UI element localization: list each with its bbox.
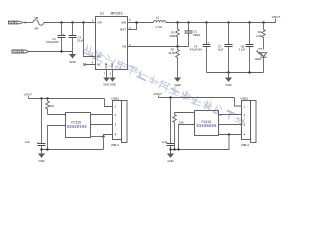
svg-text:L2: L2 [156,15,160,19]
svg-text:100K: 100K [169,34,175,38]
IC PL515 right [195,111,219,136]
regulator U1 MP2315 [92,11,131,69]
svg-text:4.7uH: 4.7uH [155,25,162,29]
svg-text:USB1: USB1 [111,97,119,101]
ground R2 [174,78,181,88]
resistor 51K right [173,113,184,150]
svg-text:6R: 6R [35,27,39,31]
svg-text:LED1: LED1 [255,57,262,61]
svg-text:470uF/16V: 470uF/16V [190,49,203,52]
capacitor C5 330pF [185,23,201,47]
capacitor 1uF right [162,98,175,154]
svg-text:GND: GND [174,83,180,87]
svg-text:R2: R2 [171,47,175,51]
ground left block [38,154,45,164]
node C1 [60,21,62,23]
wire vout rail [159,97,235,99]
resistor R4 2.0K [256,23,265,50]
svg-text:R4: R4 [258,30,262,34]
svg-text:24.9K: 24.9K [168,51,175,55]
svg-text:+: + [63,32,65,36]
wire D+ right [219,114,242,116]
svg-text:0.1uF: 0.1uF [77,39,84,43]
svg-text:FB: FB [35,16,39,20]
svg-text:U1: U1 [100,11,104,15]
svg-text:GND: GND [110,63,114,69]
svg-text:GND: GND [103,83,109,87]
wire D- [91,124,113,126]
wire BST [128,23,137,30]
svg-text:R1: R1 [171,30,175,34]
capacitor 1uF left [25,99,45,154]
node C3 [71,21,73,23]
inductor L2 4.7uH [154,15,166,29]
watermark company name [82,43,247,127]
svg-text:BST: BST [120,28,126,32]
svg-text:USB-A: USB-A [241,143,249,147]
wire pin2 to gnd [48,126,66,150]
no-connect X pin4 [83,63,95,65]
svg-text:51K: 51K [50,104,55,108]
wire [25,22,33,24]
wire pin2 to gnd right [179,125,195,150]
svg-text:100uF/25V: 100uF/25V [46,40,59,44]
wire SW [128,22,154,24]
wire LED down [263,57,265,72]
node VOUT top [275,19,277,23]
svg-text:1uF: 1uF [25,140,30,144]
wire FB line [128,46,189,48]
svg-text:1uF: 1uF [162,140,167,144]
wire vout to pin1 right [235,98,242,107]
LED1 [255,49,267,61]
svg-text:GND: GND [104,63,108,69]
svg-text:EN: EN [97,55,101,59]
wire vout rail [166,22,276,24]
wire gnd line [42,149,104,151]
svg-text:VOUT: VOUT [272,15,281,19]
svg-text:51K: 51K [179,121,184,125]
svg-text:+: + [207,41,209,45]
svg-text:USB-A: USB-A [111,143,119,147]
svg-text:2.0K: 2.0K [256,34,262,38]
svg-text:GND: GND [225,83,231,87]
ground output [225,78,232,88]
wire gnd rail [29,51,73,53]
svg-text:GND: GND [13,50,24,54]
wire EN branch [84,23,96,57]
IC PL515 left [66,113,91,138]
svg-text:PL515: PL515 [71,121,81,125]
wire gnd line right [171,149,230,151]
svg-text:NC: NC [97,63,101,67]
svg-text:VIN: VIN [9,21,18,25]
svg-text:GND: GND [39,159,45,163]
svg-text:GND: GND [69,60,75,64]
svg-text:VOUT: VOUT [24,93,33,97]
wire pin4 gnd [104,135,113,150]
wire PL515 gnd stub [91,136,104,138]
wire [72,52,74,55]
capacitor C3 0.1uF [69,23,85,52]
svg-text:10uF: 10uF [218,49,224,52]
port VIN [9,21,27,25]
port GND [12,50,29,54]
capacitor C8 0.1uF [239,23,254,73]
U1 gnd pin stubs [107,70,113,78]
ferrite bead FB [33,20,44,25]
wire input rail [44,22,96,24]
svg-text:B5B: B5B [258,49,263,51]
ground right block [167,154,174,164]
capacitor C1 100uF/25V [46,23,65,52]
ground input [69,54,76,64]
wire vout to pin1 [105,99,113,107]
svg-text:330pF: 330pF [193,33,201,37]
node EN [82,21,84,23]
svg-text:GND: GND [110,83,116,87]
wire pin4 gnd right [219,134,242,136]
wire D- right [219,124,242,126]
svg-text:USB2: USB2 [240,97,248,101]
capacitor C4 470uF/16V [190,23,211,73]
wire pin1 line right [175,112,195,114]
connector USB1 [111,97,127,147]
svg-text:GND: GND [168,159,174,163]
wire res to pin1 [48,114,66,116]
connector USB2 [240,97,256,147]
svg-text:PL515: PL515 [202,120,212,124]
svg-text:0.1uF: 0.1uF [239,49,246,52]
svg-text:VIN: VIN [97,21,102,25]
svg-text:SW: SW [121,21,126,25]
resistor 51K left [46,99,55,115]
wire [228,73,230,78]
svg-text:FB: FB [122,45,126,49]
resistor R2 24.9K [168,47,179,78]
resistor R1 100K [169,23,179,47]
svg-text:VOUT: VOUT [154,92,163,96]
svg-text:MP2315: MP2315 [111,11,123,15]
wire output gnd rail [207,72,264,74]
svg-text:C5: C5 [193,29,197,33]
capacitor C7 10uF [218,23,233,73]
wire D+ [91,114,113,116]
wire vout rail [29,98,105,100]
ground U1 pins [103,78,116,87]
